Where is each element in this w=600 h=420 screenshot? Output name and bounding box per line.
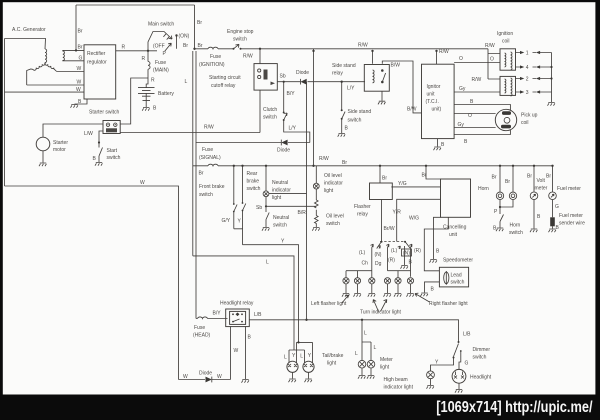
svg-text:Speedometer: Speedometer	[443, 258, 473, 264]
svg-text:L: L	[300, 354, 303, 360]
svg-text:indicator light: indicator light	[384, 385, 414, 391]
ground fuel sender	[549, 229, 556, 232]
turn lamp 1	[343, 278, 349, 284]
svg-text:unit: unit	[427, 92, 436, 98]
wire B cancelling to ground	[434, 217, 441, 259]
wire Br ignition bus	[195, 48, 489, 50]
fuel sender resistor R1	[550, 217, 555, 226]
svg-text:Headlight relay: Headlight relay	[220, 301, 254, 307]
arrows turn indicator	[373, 300, 387, 312]
svg-text:Battery: Battery	[158, 91, 174, 97]
ignition coil T2	[500, 76, 516, 96]
svg-text:L: L	[284, 355, 287, 361]
svg-text:light: light	[324, 188, 334, 194]
svg-text:switch: switch	[451, 280, 465, 286]
svg-text:B: B	[248, 335, 252, 341]
tail/brake bulb 1	[287, 361, 298, 372]
wire B from rectifier to ground	[75, 99, 88, 104]
wire Gy ignitor to pick up	[454, 127, 496, 129]
svg-text:Volt: Volt	[537, 178, 546, 184]
svg-text:Pick up: Pick up	[521, 113, 538, 119]
ground headlight relay	[242, 380, 249, 383]
wire L/Y to side stand switch	[341, 82, 343, 133]
svg-text:Lead: Lead	[451, 273, 462, 279]
wire O ignitor to coil T1	[454, 62, 500, 64]
diode D2	[281, 140, 287, 146]
ground speedometer feed	[425, 282, 440, 293]
svg-text:B: B	[470, 99, 474, 105]
svg-text:Diode: Diode	[277, 148, 290, 154]
svg-text:unit: unit	[449, 232, 458, 238]
svg-text:light: light	[272, 195, 282, 201]
wire G to headlight	[459, 358, 461, 369]
neutral switch S8	[266, 210, 269, 228]
svg-text:motor: motor	[53, 147, 66, 153]
svg-text:(L): (L)	[391, 248, 397, 254]
wire volt meter to ground	[533, 200, 535, 229]
wire horn 2 feed	[512, 166, 514, 192]
wire main switch ON to top rail	[177, 5, 195, 49]
svg-text:Right flasher light: Right flasher light	[429, 301, 468, 307]
svg-text:O: O	[459, 56, 463, 62]
ground horn switch	[496, 228, 503, 231]
svg-text:L: L	[355, 351, 358, 357]
svg-text:Fuse: Fuse	[155, 60, 166, 66]
battery BT1	[138, 88, 155, 97]
svg-text:Br: Br	[197, 20, 202, 26]
svg-text:G/Y: G/Y	[222, 218, 231, 224]
tail brake bulb labels	[297, 341, 299, 343]
svg-text:Rear: Rear	[247, 171, 258, 177]
svg-text:Gy: Gy	[458, 122, 465, 128]
ground starter motor	[39, 163, 46, 166]
ground side stand relay	[378, 101, 385, 104]
wire right lamp rail	[388, 248, 411, 278]
pick up coil P1	[495, 109, 516, 130]
wire L from main switch down	[192, 51, 194, 256]
wire R rectifier to main switch	[116, 50, 157, 52]
wire relay W output	[230, 326, 232, 379]
svg-text:(MAIN): (MAIN)	[153, 68, 169, 74]
engine stop switch S3	[233, 44, 242, 50]
wire Y line to tail lights	[243, 245, 313, 362]
starter motor M1	[36, 137, 50, 151]
svg-text:(OFF: (OFF	[153, 44, 165, 50]
svg-text:coil: coil	[502, 39, 510, 45]
svg-text:Oil level: Oil level	[326, 214, 344, 220]
svg-text:Y: Y	[281, 239, 285, 245]
node junction to cutoff relay	[259, 48, 261, 50]
svg-text:L/W: L/W	[84, 131, 93, 137]
svg-text:B: B	[431, 287, 435, 293]
lead switch reed inside speedometer	[444, 271, 449, 285]
wire W3 generator to rectifier	[5, 91, 85, 93]
svg-text:Br: Br	[422, 173, 427, 179]
rear brake switch S7	[243, 166, 246, 229]
ground side stand switch	[338, 134, 345, 137]
svg-text:Fuse: Fuse	[210, 54, 221, 60]
ignitor unit U2	[422, 64, 455, 138]
fuel meter M3	[549, 192, 557, 200]
dimmer switch S12	[453, 341, 462, 359]
svg-text:R: R	[122, 45, 126, 51]
watermark text	[436, 399, 592, 417]
horn 2	[509, 192, 516, 199]
svg-text:switch: switch	[473, 355, 487, 361]
svg-text:light: light	[380, 365, 390, 371]
svg-text:brake: brake	[247, 179, 260, 185]
svg-text:W: W	[217, 374, 222, 380]
main switch S1	[148, 32, 178, 52]
svg-text:Main switch: Main switch	[148, 22, 174, 28]
svg-text:Y: Y	[292, 353, 296, 359]
svg-text:Neutral: Neutral	[272, 180, 288, 186]
wire R down to fuse MAIN	[147, 51, 149, 78]
wire ignitor B to ground	[437, 139, 439, 147]
svg-text:meter: meter	[535, 186, 548, 192]
svg-text:B: B	[537, 214, 541, 220]
neutral indicator light DS1	[263, 166, 269, 210]
svg-text:Y/R: Y/R	[393, 210, 402, 216]
svg-text:switch: switch	[348, 118, 362, 124]
svg-text:Headlight: Headlight	[470, 375, 492, 381]
svg-text:W: W	[140, 180, 145, 186]
svg-text:unit): unit)	[432, 107, 442, 113]
svg-text:(ON): (ON)	[179, 34, 190, 40]
wire meter light feed	[362, 320, 371, 361]
wire relay to start switch	[99, 131, 103, 162]
node Br junction on field loop	[75, 49, 77, 51]
svg-text:R/W: R/W	[358, 43, 368, 49]
fuse IGNITION F2	[208, 47, 218, 49]
oil level indicator light DS2	[313, 166, 319, 200]
wire battery feed into relay right	[120, 121, 131, 124]
wire L route to tail lights	[193, 256, 305, 362]
wire battery to ground	[143, 93, 151, 107]
svg-text:(R): (R)	[414, 248, 421, 254]
svg-text:Engine stop: Engine stop	[227, 29, 254, 35]
wire O ignitor to pick up	[454, 113, 496, 115]
grounds meter lights	[362, 368, 371, 375]
svg-text:(N): (N)	[375, 252, 382, 258]
wire spark plug common	[551, 53, 553, 103]
svg-text:O: O	[490, 57, 494, 63]
oil level switch S9	[314, 200, 318, 227]
svg-text:(SIGNAL): (SIGNAL)	[199, 155, 221, 161]
svg-text:Br: Br	[527, 174, 532, 180]
horn 1	[496, 192, 503, 199]
ignition coil T1	[500, 49, 516, 70]
wire feeder column	[195, 51, 197, 143]
svg-text:B/W: B/W	[391, 63, 401, 69]
clutch switch S4	[283, 112, 287, 122]
scan border top	[0, 0, 600, 2]
wire W main earth rail	[5, 186, 179, 380]
svg-text:L: L	[266, 260, 269, 266]
wire B/Y from relay to clutch switch	[284, 82, 310, 143]
wire R/W column to signal bus	[313, 49, 315, 166]
field coil loop wires to rectifier	[63, 50, 84, 60]
flasher relay K4	[370, 183, 393, 200]
wire top rail	[76, 4, 195, 6]
fuse HEAD F4	[198, 317, 208, 319]
svg-text:Fuse: Fuse	[194, 325, 205, 331]
svg-text:indicator: indicator	[324, 181, 343, 187]
svg-text:Ch: Ch	[362, 261, 369, 267]
headlight relay K5	[226, 309, 250, 327]
wire B ignitor output	[454, 105, 510, 111]
svg-text:Br: Br	[198, 43, 203, 49]
turn switch contact arrows	[371, 244, 413, 249]
svg-text:switch: switch	[107, 155, 121, 161]
svg-text:switch: switch	[247, 186, 261, 192]
svg-text:L/B: L/B	[254, 312, 262, 318]
svg-text:O: O	[468, 113, 472, 119]
spark plug 1	[516, 51, 552, 57]
wire bus to side stand relay coil	[372, 51, 374, 64]
ground start switch	[95, 163, 102, 166]
side stand relay K3	[364, 65, 389, 92]
svg-text:(R): (R)	[388, 258, 395, 264]
wire down to cutoff relay	[259, 49, 261, 64]
svg-text:Br: Br	[183, 43, 188, 49]
svg-text:P: P	[494, 209, 498, 215]
side stand switch S5	[341, 109, 345, 120]
wire horns to horn switch	[500, 200, 513, 228]
rectifier/regulator U1	[84, 45, 116, 99]
svg-text:Br: Br	[199, 171, 204, 177]
svg-text:B/R: B/R	[298, 210, 307, 216]
svg-text:L: L	[185, 79, 188, 85]
wire B/W relay contact to ignitor	[382, 61, 421, 113]
ground battery	[142, 108, 149, 111]
grounds under turn lamps	[346, 284, 411, 293]
wire L/B light bus	[249, 320, 458, 342]
wire W2 generator to rectifier	[27, 84, 84, 86]
svg-text:Ignitor: Ignitor	[427, 84, 441, 90]
wire W/G cancelling to speedometer	[424, 217, 448, 270]
svg-text:switch: switch	[233, 37, 247, 43]
svg-text:Br: Br	[78, 44, 83, 50]
wire Sb column to neutral circuit	[266, 82, 316, 320]
svg-text:R/W: R/W	[319, 156, 329, 162]
wire starter motor to ground	[42, 151, 44, 163]
arrow left flasher	[342, 295, 349, 303]
wire relay coil to ground	[381, 91, 383, 100]
meter light bulb 1	[358, 360, 366, 368]
wire fuse HEAD feed	[196, 318, 228, 320]
ground oil level switch	[312, 228, 319, 231]
svg-text:switch: switch	[273, 223, 287, 229]
volt meter M2	[530, 192, 538, 200]
svg-text:Dg: Dg	[375, 261, 382, 267]
wire Br vertical to top rail	[75, 5, 77, 50]
diode D3	[206, 377, 212, 383]
svg-text:B: B	[464, 139, 468, 145]
svg-text:W: W	[183, 374, 188, 380]
wire diode line B to headlight fuse column	[196, 143, 310, 319]
node bus junctions	[233, 165, 235, 167]
svg-text:Sb: Sb	[280, 74, 286, 80]
svg-text:Front brake: Front brake	[199, 184, 225, 190]
fuse MAIN F1	[148, 62, 150, 70]
svg-text:B: B	[441, 142, 445, 148]
svg-text:[1069x714] http://upic.me/: [1069x714] http://upic.me/	[436, 399, 592, 417]
svg-text:L: L	[364, 331, 367, 337]
grounds tail bulbs	[293, 372, 309, 378]
svg-text:R/W: R/W	[243, 54, 253, 60]
turn lamp 2	[354, 278, 360, 284]
wire Br to cancelling unit	[426, 166, 441, 179]
svg-text:L: L	[374, 345, 377, 351]
svg-text:Br/W: Br/W	[384, 226, 395, 232]
svg-text:Clutch: Clutch	[263, 107, 277, 113]
svg-text:Tail/brake: Tail/brake	[322, 353, 344, 359]
svg-text:Side stand: Side stand	[332, 63, 356, 69]
ground high beam	[430, 379, 432, 385]
meter light bulb 2	[367, 360, 375, 368]
generator left frame wire	[4, 39, 6, 187]
wire brake switches to Y line	[234, 229, 243, 245]
svg-text:R: R	[151, 78, 155, 84]
wire Sb through diode	[277, 81, 365, 83]
wire starter motor to relay	[43, 124, 103, 137]
wire Y/R cancelling to turn switch	[397, 199, 441, 241]
svg-text:coil: coil	[521, 120, 529, 126]
node neutral split	[265, 205, 267, 207]
svg-text:switch: switch	[509, 230, 523, 236]
turn lamp 6	[407, 278, 413, 284]
node side stand bus junctions	[312, 50, 314, 52]
wire fuel meter feed	[552, 166, 554, 192]
wire Br/W flasher to turn switch	[381, 200, 383, 242]
svg-text:P: P	[163, 51, 167, 57]
svg-text:(T.C.I.: (T.C.I.	[426, 99, 439, 105]
svg-text:Br: Br	[505, 179, 510, 185]
ground ignitor	[434, 147, 441, 150]
svg-text:Horn: Horn	[510, 223, 521, 229]
svg-text:Br: Br	[342, 160, 347, 166]
svg-text:Y: Y	[308, 353, 312, 359]
svg-text:3: 3	[526, 90, 529, 96]
front brake switch S6	[234, 166, 237, 229]
wire R/W bus into ignitor	[436, 51, 438, 64]
svg-text:Rectifier: Rectifier	[87, 51, 106, 57]
svg-text:relay: relay	[332, 71, 343, 77]
svg-text:2: 2	[526, 77, 529, 83]
scan border right	[595, 0, 600, 420]
svg-text:4: 4	[526, 65, 529, 71]
svg-text:1: 1	[526, 51, 529, 57]
ground volt meter	[530, 229, 537, 232]
svg-text:R/W: R/W	[204, 125, 214, 131]
spark plug 4	[516, 65, 552, 71]
ground rectifier	[71, 105, 78, 108]
fuse SIGNAL F3	[208, 164, 218, 166]
svg-text:B/Y: B/Y	[287, 91, 296, 97]
svg-text:Fuel meter: Fuel meter	[557, 186, 581, 192]
svg-text:Diode: Diode	[199, 371, 212, 377]
turn lamp 4	[384, 278, 390, 284]
svg-text:Meter: Meter	[380, 357, 393, 363]
wire R/W into ignition coils	[488, 49, 500, 79]
svg-text:G: G	[79, 55, 83, 61]
svg-text:R/W: R/W	[485, 43, 495, 49]
svg-text:Br: Br	[382, 176, 387, 182]
cancelling unit U3	[441, 179, 471, 217]
svg-text:switch: switch	[263, 115, 277, 121]
svg-text:A.C. Generator: A.C. Generator	[12, 27, 46, 33]
wire fuse to battery and starter relay branch	[131, 78, 148, 121]
scan border left	[0, 0, 3, 420]
A.C. generator stator coils	[5, 39, 57, 86]
svg-text:L/Y: L/Y	[289, 126, 297, 132]
svg-text:Flasher: Flasher	[354, 204, 371, 210]
svg-text:G: G	[465, 361, 469, 367]
svg-text:B/Y: B/Y	[213, 311, 222, 317]
svg-text:relay: relay	[357, 212, 368, 218]
svg-text:Gy: Gy	[459, 86, 466, 92]
ground turn switch N	[404, 246, 406, 265]
speedometer assembly	[439, 267, 468, 287]
wire horn 1 feed	[499, 166, 501, 192]
svg-text:R/W: R/W	[439, 49, 449, 55]
svg-text:W: W	[77, 66, 82, 72]
turn lamp 3	[369, 278, 375, 284]
svg-text:switch: switch	[326, 221, 340, 227]
svg-text:Ignition: Ignition	[497, 31, 513, 37]
wire Br to flasher relay	[379, 166, 381, 183]
wire B ignitor bottom	[454, 130, 510, 135]
wire W1 generator to rectifier	[57, 71, 84, 73]
high beam indicator bulb	[427, 371, 435, 379]
svg-text:switch: switch	[199, 192, 213, 198]
svg-text:(HEAD): (HEAD)	[193, 333, 211, 339]
headlight lamp	[452, 369, 466, 383]
wire Y to high beam indicator	[431, 358, 454, 372]
svg-text:High beam: High beam	[384, 377, 408, 383]
svg-text:B: B	[345, 126, 349, 132]
svg-text:Starter switch: Starter switch	[89, 110, 120, 116]
arrow right flasher	[415, 293, 430, 302]
horn switch S11	[500, 215, 504, 222]
wire W bottom run with diode	[179, 379, 231, 381]
svg-text:Br: Br	[492, 175, 497, 181]
svg-text:cutoff relay: cutoff relay	[211, 83, 236, 89]
svg-text:B: B	[153, 106, 157, 112]
svg-text:G: G	[555, 204, 559, 210]
svg-text:Oil level: Oil level	[324, 173, 342, 179]
ground neutral switch	[262, 228, 269, 231]
turn signal switch S10 dashed	[377, 241, 410, 249]
node meter light tap	[361, 319, 363, 321]
wire fuel meter to sender resistor	[552, 200, 554, 218]
svg-text:B/W: B/W	[407, 107, 417, 113]
ground cancelling unit	[430, 260, 437, 263]
svg-text:(IGNITION): (IGNITION)	[199, 62, 225, 68]
svg-text:Y: Y	[238, 219, 242, 225]
svg-text:L/B: L/B	[463, 332, 471, 338]
watermark band	[0, 395, 600, 420]
svg-text:light: light	[327, 361, 337, 367]
wire left lamp rail	[346, 248, 372, 278]
svg-text:regulator: regulator	[87, 60, 107, 66]
svg-text:Cancelling: Cancelling	[443, 225, 467, 231]
tail/brake bulb 2	[303, 361, 314, 372]
svg-text:B: B	[93, 156, 97, 162]
svg-text:indicator: indicator	[272, 188, 291, 194]
svg-text:R: R	[142, 56, 146, 62]
